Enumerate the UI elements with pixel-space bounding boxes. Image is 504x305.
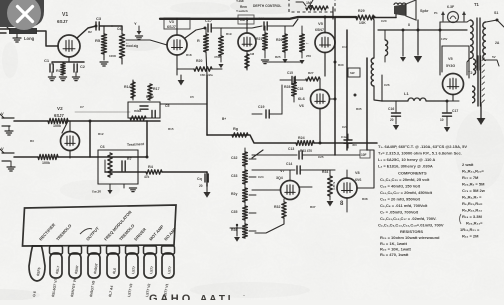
svg-text:C35: C35 <box>231 210 237 214</box>
svg-text:Long: Long <box>24 36 35 41</box>
svg-text:Y.out: Y.out <box>236 0 245 3</box>
svg-text:5Y3G: 5Y3G <box>446 64 455 68</box>
svg-text:R28: R28 <box>284 85 290 89</box>
svg-text:Y.switch: Y.switch <box>236 9 248 13</box>
svg-text:R27: R27 <box>308 71 314 75</box>
svg-text:115V: 115V <box>441 37 448 41</box>
svg-text:6SJ7: 6SJ7 <box>54 113 64 118</box>
svg-text:C₇ = .05mfd, 700Volt: C₇ = .05mfd, 700Volt <box>380 210 419 215</box>
svg-text:C₇₉ = 5M 2w: C₇₉ = 5M 2w <box>462 188 486 193</box>
svg-text:C5: C5 <box>165 104 170 108</box>
svg-text:R35: R35 <box>356 107 362 111</box>
svg-text:6SJ7: 6SJ7 <box>57 19 68 24</box>
svg-text:R19: R19 <box>226 32 232 36</box>
svg-text:R₂₆,R₅ = 5M: R₂₆,R₅ = 5M <box>462 182 485 187</box>
svg-text:R26: R26 <box>276 38 282 42</box>
svg-text:R150: R150 <box>146 95 154 99</box>
svg-text:R₂₀ = 10ohm 10watt wirewound: R₂₀ = 10ohm 10watt wirewound <box>380 235 440 240</box>
svg-text:6SJ7: 6SJ7 <box>167 25 176 29</box>
svg-text:1/2K: 1/2K <box>359 21 366 25</box>
svg-text:R32: R32 <box>274 205 280 209</box>
svg-text:V5: V5 <box>448 57 453 61</box>
svg-text:..: .. <box>243 292 245 297</box>
svg-text:100k: 100k <box>53 124 61 128</box>
svg-text:C23: C23 <box>342 125 348 129</box>
svg-text:C19: C19 <box>258 105 264 109</box>
svg-text:C3: C3 <box>96 16 102 21</box>
svg-text:C₁₀,C₆,C₂₇ = 20mfd, 450Volt: C₁₀,C₆,C₂₇ = 20mfd, 450Volt <box>380 190 433 195</box>
svg-text:C1: C1 <box>44 58 50 63</box>
svg-text:V8: V8 <box>355 171 360 175</box>
svg-text:R₂₃ = 10K, 1watt: R₂₃ = 10K, 1watt <box>380 247 412 252</box>
svg-text:R21: R21 <box>256 37 262 41</box>
svg-text:T₂= 2.315.3, 10000 ohm P.P., 5: T₂= 2.315.3, 10000 ohm P.P., 5.1 6.8ohm … <box>378 151 462 156</box>
svg-text:SW: SW <box>350 71 355 75</box>
svg-text:250: 250 <box>306 54 311 58</box>
svg-text:T₁- 6A40P, 660°C.T. @ .110A, 6: T₁- 6A40P, 660°C.T. @ .110A, 63°CS @2.15… <box>378 144 467 149</box>
svg-text:C4a: C4a <box>341 135 347 139</box>
svg-text:R18: R18 <box>186 53 192 57</box>
svg-text:Tre.30: Tre.30 <box>92 189 102 194</box>
svg-text:mica: mica <box>134 109 141 113</box>
svg-text:R25: R25 <box>275 55 281 59</box>
svg-text:R15: R15 <box>168 127 174 131</box>
svg-text:R30: R30 <box>338 63 344 67</box>
svg-text:P1: P1 <box>434 11 438 15</box>
svg-text:C4: C4 <box>117 27 121 31</box>
svg-text:C₅,C₈ = .011 mfd, 700Volt: C₅,C₈ = .011 mfd, 700Volt <box>380 203 428 208</box>
svg-text:RESISTORS: RESISTORS <box>400 229 423 234</box>
svg-text:C10: C10 <box>342 45 348 49</box>
svg-text:S1: S1 <box>494 11 498 15</box>
svg-text:R14: R14 <box>124 85 131 89</box>
svg-text:6.3F: 6.3F <box>447 5 455 9</box>
svg-text:R24: R24 <box>298 136 305 140</box>
svg-text:R: R <box>197 39 200 43</box>
svg-text:R34: R34 <box>322 170 328 174</box>
svg-text:3Q4: 3Q4 <box>276 176 283 180</box>
svg-text:47k: 47k <box>144 175 150 179</box>
svg-text:R₂₆,R₃₃=: R₂₆,R₃₃= <box>466 221 483 226</box>
svg-text:T2: T2 <box>468 71 472 75</box>
svg-text:C21: C21 <box>258 17 265 21</box>
svg-text:V: V <box>1 146 4 151</box>
svg-text:R3: R3 <box>30 139 34 143</box>
svg-text:C7: C7 <box>80 105 84 109</box>
svg-text:100K: 100K <box>109 54 117 58</box>
svg-text:8: 8 <box>408 23 410 27</box>
svg-text:R₁₉ = 3.3M: R₁₉ = 3.3M <box>462 214 482 219</box>
svg-text:R29: R29 <box>358 9 365 13</box>
svg-text:L₂ = E1816, 30henry @ .030A: L₂ = E1816, 30henry @ .030A <box>378 164 433 169</box>
svg-text:R₉ = 470, 1watt: R₉ = 470, 1watt <box>380 252 409 257</box>
svg-text:C17: C17 <box>452 109 458 113</box>
svg-text:R20: R20 <box>196 59 202 63</box>
svg-text:R₈,R₂₂,R₂₄: R₈,R₂₂,R₂₄ <box>462 208 482 213</box>
svg-text:G A H O: G A H O <box>149 293 191 300</box>
svg-text:R₆,R₂₁,R₉=: R₆,R₂₁,R₉= <box>462 201 483 206</box>
svg-text:Y: Y <box>134 21 137 26</box>
svg-text:10: 10 <box>440 118 444 122</box>
svg-text:C₂₂ = 40mfd, 150 Volt: C₂₂ = 40mfd, 150 Volt <box>380 184 421 189</box>
svg-text:2A: 2A <box>495 41 500 45</box>
svg-text:C16: C16 <box>388 107 394 111</box>
svg-text:C24: C24 <box>258 175 264 179</box>
svg-text:R7: R7 <box>127 157 132 161</box>
svg-text:470K: 470K <box>214 55 221 59</box>
svg-text:6L6: 6L6 <box>298 96 306 101</box>
svg-text:C₁,C₄,C₂₅ = 20mfd, 25 volt: C₁,C₄,C₂₅ = 20mfd, 25 volt <box>380 177 430 182</box>
svg-text:C33: C33 <box>231 174 237 178</box>
svg-text:V2: V2 <box>57 106 63 111</box>
svg-text:1M: 1M <box>250 52 255 56</box>
svg-text:C18: C18 <box>297 87 303 91</box>
svg-text:V: V <box>1 111 4 116</box>
svg-text:C₆,C₁₁,C₁₂,C₁₇ = .02mfd, 700V.: C₆,C₁₁,C₁₂,C₁₇ = .02mfd, 700V. <box>380 216 436 221</box>
svg-text:C2: C2 <box>80 65 85 69</box>
svg-text:C32: C32 <box>231 156 237 160</box>
svg-text:A A T L: A A T L <box>200 294 234 300</box>
svg-text:C₁₆ = 20 mfd, 950Volt: C₁₆ = 20 mfd, 950Volt <box>380 197 421 202</box>
svg-text:20: 20 <box>199 184 203 188</box>
svg-text:C₂,C₃,C₉,C₁₃,C₁₅,C₁₉=.01mfd, 7: C₂,C₃,C₉,C₁₃,C₁₅,C₁₉=.01mfd, 700V <box>378 223 444 228</box>
svg-text:V3: V3 <box>169 19 175 24</box>
svg-text:6SN7: 6SN7 <box>315 28 324 32</box>
svg-text:5.1k½: 5.1k½ <box>332 182 336 190</box>
svg-text:mod.sig: mod.sig <box>126 44 138 48</box>
svg-text:DEPTH CONTROL: DEPTH CONTROL <box>253 4 281 8</box>
svg-text:V5: V5 <box>318 21 324 26</box>
svg-text:1R₁₁,R₂₁ =: 1R₁₁,R₂₁ = <box>460 227 480 232</box>
svg-text:C5: C5 <box>190 95 194 99</box>
svg-text:T1: T1 <box>474 2 480 7</box>
svg-text:R37: R37 <box>310 205 316 209</box>
svg-text:R5: R5 <box>95 38 101 43</box>
svg-text:15K 1/2w: 15K 1/2w <box>200 73 214 77</box>
svg-text:R17: R17 <box>153 87 160 91</box>
svg-text:Rg: Rg <box>233 127 239 131</box>
svg-text:C6: C6 <box>100 145 105 149</box>
svg-text:R₂₇ = 7M: R₂₇ = 7M <box>462 175 479 180</box>
svg-text:R₁₆ = 2M: R₁₆ = 2M <box>462 234 479 239</box>
svg-text:Spkr: Spkr <box>420 9 429 13</box>
svg-text:R1: R1 <box>56 69 61 73</box>
svg-text:L₁ = 6A25C, 10 henry @ .110 A: L₁ = 6A25C, 10 henry @ .110 A <box>378 157 435 162</box>
svg-text:2 watt: 2 watt <box>462 162 474 167</box>
svg-text:R2y: R2y <box>231 192 237 196</box>
svg-text:V1: V1 <box>62 12 68 18</box>
svg-text:C13: C13 <box>288 147 294 151</box>
svg-text:100k: 100k <box>42 161 50 165</box>
svg-text:20: 20 <box>390 118 394 122</box>
svg-text:C20: C20 <box>381 19 387 23</box>
svg-text:10F: 10F <box>361 153 367 157</box>
svg-text:L1: L1 <box>404 91 409 96</box>
svg-text:R2: R2 <box>88 30 92 34</box>
svg-text:C25: C25 <box>318 155 324 159</box>
svg-text:R₄ = 1K, 1watt: R₄ = 1K, 1watt <box>380 241 408 246</box>
svg-text:R38: R38 <box>362 197 368 201</box>
svg-text:450: 450 <box>352 143 357 147</box>
svg-text:B+: B+ <box>222 117 226 121</box>
svg-text:5V: 5V <box>492 55 496 59</box>
svg-text:C15: C15 <box>287 71 293 75</box>
svg-text:C17: C17 <box>205 19 212 23</box>
svg-text:R12: R12 <box>98 132 104 136</box>
svg-text:C26: C26 <box>384 83 390 87</box>
svg-text:COMPONENTS: COMPONENTS <box>398 171 427 176</box>
svg-text:Cq: Cq <box>197 177 202 181</box>
svg-text:R₁,R₂₁,R₂₀=: R₁,R₂₁,R₂₀= <box>462 169 485 174</box>
svg-text:V7: V7 <box>280 168 286 173</box>
svg-text:V6: V6 <box>299 103 305 108</box>
svg-text:R₁,R₆,R₇ =: R₁,R₆,R₇ = <box>462 195 482 200</box>
svg-text:C14: C14 <box>286 162 292 166</box>
svg-text:6V6: 6V6 <box>355 178 361 182</box>
svg-text:←: ← <box>305 40 310 45</box>
